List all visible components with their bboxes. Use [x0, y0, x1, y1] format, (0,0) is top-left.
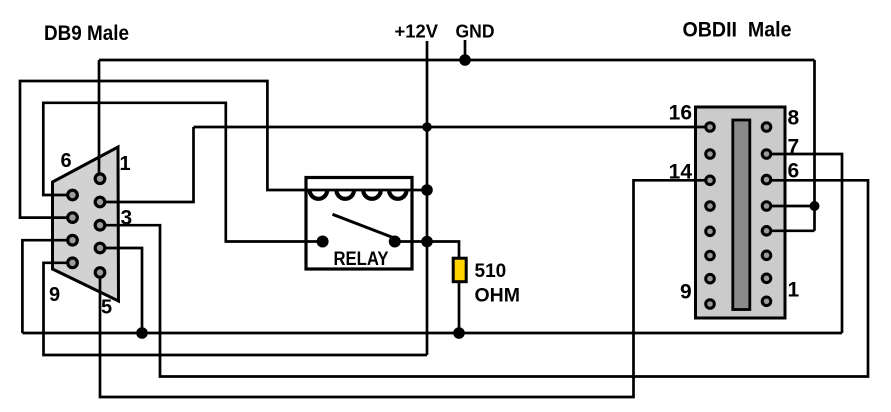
- svg-text:5: 5: [101, 297, 112, 319]
- wire net pin2 / pin16 bus: [194, 126, 708, 129]
- svg-text:OBDII Male: OBDII Male: [683, 17, 792, 41]
- svg-text:6: 6: [61, 150, 72, 172]
- wire right riser to OBDII pin7: [770, 154, 842, 333]
- wire +12V vertical: [426, 41, 429, 355]
- OBDII right pin 1: [762, 297, 771, 306]
- svg-text:510: 510: [475, 261, 507, 282]
- DB9 pin 9: [68, 258, 78, 268]
- relay blade: [333, 214, 396, 238]
- connector OBDII body: [696, 107, 786, 318]
- wire DB9 pin7 to relay coil: [20, 81, 306, 218]
- junction dot pin4 drop: [136, 327, 148, 339]
- wire switch to +12V and resistor: [394, 242, 459, 260]
- wire DB9 pin1 riser: [98, 60, 101, 179]
- OBDII right pin 4: [762, 227, 771, 236]
- svg-text:9: 9: [49, 284, 60, 306]
- wire branch to OBDII pin5: [770, 229, 815, 232]
- DB9 pin 5: [95, 268, 105, 278]
- relay box: [306, 178, 412, 270]
- OBDII right pin 3: [762, 251, 771, 260]
- OBDII right pin 2: [762, 274, 771, 283]
- wire DB9 pin4 drop: [100, 248, 142, 333]
- junction GND dot: [459, 54, 471, 66]
- wire GND right drop: [813, 60, 816, 231]
- junction dot switch/+12V: [421, 236, 433, 248]
- wire resistor bottom: [458, 281, 461, 333]
- wire relay coil line to +12V: [306, 189, 427, 192]
- svg-text:14: 14: [669, 161, 693, 184]
- junction dot +12V on pin16 bus: [422, 122, 432, 132]
- DB9 pin 8: [68, 235, 78, 245]
- wire GND stub: [464, 40, 467, 60]
- DB9 pin 6: [68, 190, 78, 200]
- wire branch to OBDII pin4: [770, 205, 815, 208]
- OBDII center slot: [733, 120, 750, 310]
- svg-text:3: 3: [121, 207, 133, 230]
- DB9 pin 3: [95, 220, 105, 230]
- svg-text:1: 1: [120, 153, 131, 175]
- wire DB9 pin9 to +12V bottom: [44, 263, 428, 355]
- wire DB9 pin3 to OBDII pin6: [100, 180, 868, 376]
- wire DB9 pin8 drop: [22, 240, 72, 333]
- svg-text:1: 1: [788, 279, 800, 302]
- svg-text:RELAY: RELAY: [334, 249, 389, 270]
- wire DB9 pin2 branch: [100, 127, 194, 202]
- OBDII right pin 8: [762, 123, 771, 132]
- OBDII right pin 5: [762, 202, 771, 211]
- relay coil arcs: [310, 190, 407, 199]
- svg-text:DB9 Male: DB9 Male: [44, 21, 129, 45]
- svg-text:6: 6: [788, 160, 800, 183]
- DB9 pin 7: [68, 213, 78, 223]
- OBDII right pin 7: [762, 150, 771, 159]
- wire GND top bus: [99, 59, 815, 62]
- OBDII left pin 15: [706, 150, 715, 159]
- svg-text:9: 9: [680, 281, 692, 304]
- OBDII left pin 10: [706, 274, 715, 283]
- svg-text:7: 7: [788, 136, 800, 159]
- OBDII left pin 9: [706, 300, 715, 309]
- svg-text:16: 16: [669, 102, 692, 125]
- wire bottom bus y333: [22, 332, 842, 335]
- junction dot GND to OBDII pin4: [810, 201, 820, 211]
- junction dot resistor bottom: [453, 327, 465, 339]
- connector DB9 body: [53, 147, 119, 301]
- OBDII left pin 11: [706, 251, 715, 260]
- wire DB9 pin6 to relay switch: [43, 103, 322, 242]
- DB9 pin 2: [95, 197, 105, 207]
- OBDII left pin 12: [706, 227, 715, 236]
- relay contact right: [389, 236, 401, 248]
- OBDII left pin 16: [706, 123, 715, 132]
- svg-text:8: 8: [788, 107, 800, 130]
- relay contact left: [317, 236, 329, 248]
- DB9 pin 1: [95, 174, 105, 184]
- svg-text:+12V: +12V: [395, 20, 439, 41]
- DB9 pin 4: [95, 243, 105, 253]
- svg-text:GND: GND: [456, 20, 495, 41]
- junction dot coil/+12V: [421, 184, 433, 196]
- svg-text:OHM: OHM: [475, 286, 521, 307]
- wire DB9 pin5 to OBDII pin14: [100, 180, 707, 397]
- OBDII right pin 6: [762, 175, 771, 184]
- resistor R 510 OHM: [453, 258, 466, 282]
- OBDII left pin 14: [706, 176, 715, 185]
- OBDII left pin 13: [706, 202, 715, 211]
